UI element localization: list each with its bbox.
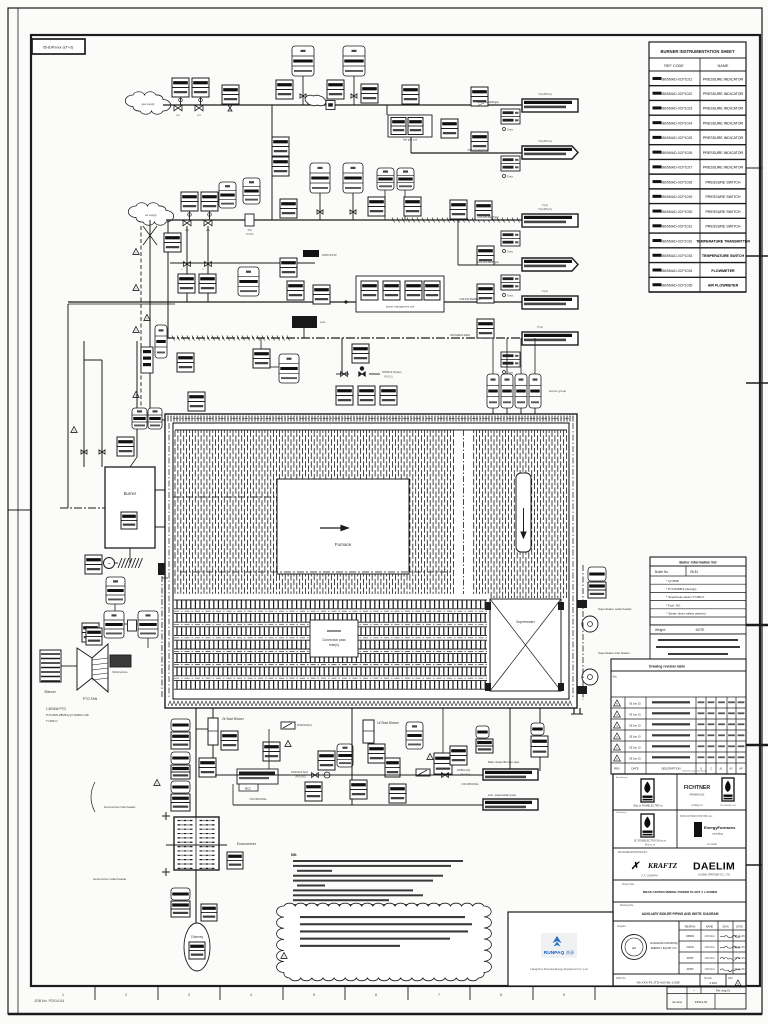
instrument PI-1057 [380, 386, 397, 405]
wire riser x272 [271, 105, 273, 220]
svg-text:1# Start Blower: 1# Start Blower [377, 721, 400, 725]
vent capsule vertical [155, 325, 167, 358]
svg-text:5: 5 [313, 993, 315, 997]
instrument PI-1053 [253, 338, 270, 368]
svg-text:Main steam/fill riser pipe: Main steam/fill riser pipe [488, 760, 520, 764]
flow element FE-A [326, 101, 335, 110]
wire header E [166, 337, 522, 339]
svg-text:Convection pass: Convection pass [322, 638, 346, 642]
svg-text:No.: No. [613, 675, 618, 679]
instrument bc-10 [450, 746, 467, 765]
svg-text:4: 4 [250, 993, 252, 997]
platen superheater [516, 473, 531, 552]
instrument bc-5 [318, 751, 335, 770]
svg-text:05-8J: 05-8J [690, 570, 698, 574]
shaft hatch [118, 558, 142, 568]
svg-text:T(xx)/P(xx): T(xx)/P(xx) [538, 92, 552, 96]
svg-text:DN25 B-FW: DN25 B-FW [322, 253, 337, 257]
wire hazard dashline x141 [140, 226, 142, 420]
superheater headers [485, 602, 564, 691]
blower 2 body [208, 718, 218, 745]
svg-text:DN65x3.5(Gas): DN65x3.5(Gas) [382, 370, 401, 374]
svg-text:05 Jan 15: 05 Jan 15 [629, 745, 641, 749]
instrument PI-1041 [178, 274, 195, 293]
downcomer line [161, 576, 163, 698]
svg-text:PRESSURE INDICATOR: PRESSURE INDICATOR [703, 166, 744, 170]
wire banner4 feed [458, 219, 522, 265]
svg-text:PN RANKA 1/02: PN RANKA 1/02 [720, 804, 737, 807]
svg-text:SUB-CONTRACTOR FOR xxxx: SUB-CONTRACTOR FOR xxxx [680, 815, 713, 818]
svg-text:NAME: NAME [706, 925, 714, 928]
svg-text:0B05MAD-0CP1033: 0B05MAD-0CP1033 [661, 254, 693, 258]
svg-text:!: ! [136, 287, 137, 291]
svg-text:T=180 C: T=180 C [46, 719, 58, 723]
filename sub-table [667, 987, 746, 1009]
dn150 label [291, 770, 308, 779]
svg-text:Boiler No.: Boiler No. [655, 570, 669, 574]
svg-text:05 Jan 15: 05 Jan 15 [734, 947, 745, 949]
vertical box E [141, 347, 153, 373]
warning triangle burner [71, 427, 77, 433]
instrument PI-1029 [471, 132, 488, 151]
svg-text:C00-Ma5x5-Ma00: C00-Ma5x5-Ma00 [450, 334, 471, 337]
mini sample tbl 4 [501, 275, 520, 298]
valve V-A1 [174, 105, 182, 117]
instrument sil-tag [86, 628, 102, 645]
instrument PI-1052 [188, 392, 205, 411]
svg-text:fuel gas unit: fuel gas unit [403, 138, 417, 142]
svg-text:(PN2.5): (PN2.5) [384, 375, 393, 379]
valve bc-1 [312, 773, 319, 778]
svg-text:KRAFTZ: KRAFTZ [647, 861, 678, 870]
eco outlet header mark [162, 868, 170, 876]
svg-text:PRESSURE SWITCH: PRESSURE SWITCH [706, 180, 741, 184]
centering mark right 6 [746, 864, 762, 866]
superheater box [490, 599, 561, 691]
instrument chim-2 [201, 904, 217, 921]
svg-text:05 Jan 15: 05 Jan 15 [629, 712, 641, 716]
wire fuel gas header A [163, 104, 522, 106]
instrument PI-1027 [402, 85, 419, 104]
instrument PI-1026 [361, 84, 378, 103]
svg-text:ENERGY EQUIP. CO.: ENERGY EQUIP. CO. [651, 946, 678, 950]
svg-text:Chimney: Chimney [191, 935, 204, 939]
instrument PI-1034 [368, 197, 385, 216]
svg-text:T(xx): T(xx) [542, 289, 548, 293]
furnace window [277, 479, 409, 574]
svg-text:Multicyclone: Multicyclone [112, 670, 128, 674]
svg-text:7: 7 [438, 993, 440, 997]
svg-text:DAELIM: DAELIM [693, 861, 735, 873]
instrument bc-4 [305, 782, 322, 801]
svg-text:T(xx)/P(xx): T(xx)/P(xx) [538, 139, 552, 143]
wire steam riser 1 [509, 708, 511, 771]
valve bc-2 [442, 773, 449, 778]
blower1 label [377, 721, 400, 725]
instrument bc-7 [385, 758, 400, 777]
svg-text:* P=3.82MPa (design): * P=3.82MPa (design) [666, 587, 696, 591]
bottom ruler scale [62, 986, 595, 1000]
gas skid frame [388, 115, 432, 142]
svg-text:File: dwg-01: File: dwg-01 [716, 989, 731, 993]
svg-text:!: ! [147, 317, 148, 321]
instrument bc-6 [368, 744, 385, 763]
aux steam label [488, 793, 516, 797]
svg-text:BRAZI UNITED MINING POWER PLAN: BRAZI UNITED MINING POWER PLANT 2 x 600M… [643, 890, 717, 894]
valve V-C1 [181, 262, 190, 271]
warning triangle T3 [133, 327, 139, 333]
svg-text:Drain: Drain [507, 294, 514, 298]
instrument burner-int [121, 512, 137, 529]
boiler outer shell [165, 414, 577, 708]
convection bank grid [174, 600, 487, 689]
controller PC capsule [106, 577, 125, 604]
svg-text:NOTE: NOTE [696, 628, 705, 632]
centering mark right 3 [746, 382, 768, 384]
svg-text:05 Jan 15: 05 Jan 15 [734, 969, 745, 971]
furnace centerline h [180, 571, 452, 573]
svg-text:SIGN: SIGN [722, 925, 728, 928]
svg-text:C00-NR5x5xMa: C00-NR5x5xMa [249, 798, 267, 801]
flame arrestor label [549, 389, 567, 393]
controller PC-B2 [243, 178, 260, 204]
instrument PI-1030 [441, 119, 458, 138]
svg-text:1: 1 [62, 993, 64, 997]
svg-text:* Superheat steam T=450 C: * Superheat steam T=450 C [666, 595, 705, 599]
economizer outlet label [94, 877, 127, 881]
svg-text:T/C: T/C [247, 228, 252, 232]
svg-text:!: ! [136, 329, 137, 333]
signature grid [679, 921, 746, 974]
wire skid drop [410, 137, 412, 153]
instrument PT-1023 [222, 85, 239, 105]
svg-text:Beneficiary:: Beneficiary: [616, 776, 628, 779]
svg-text:0B05MAD-0CP1021: 0B05MAD-0CP1021 [661, 77, 693, 81]
svg-text:0B05MAD-0CP1028: 0B05MAD-0CP1028 [661, 180, 693, 184]
svg-text:1:100: 1:100 [709, 981, 717, 985]
instrument eco-TI [171, 781, 190, 811]
svg-text:05 Jan 15: 05 Jan 15 [734, 958, 745, 960]
instrument PI-1021 [172, 78, 189, 105]
instrument eco-out [227, 852, 243, 869]
valve V-B2 [204, 220, 212, 232]
svg-text:~: ~ [693, 989, 695, 993]
svg-text:JOB No. P2014-04: JOB No. P2014-04 [34, 999, 64, 1003]
economizer label [237, 842, 257, 846]
svg-text:T(xx)/P(xx): T(xx)/P(xx) [538, 207, 552, 211]
wire burner-motor [115, 548, 130, 563]
instrument PI-1047 [477, 284, 494, 303]
svg-text:Superheater: Superheater [516, 620, 536, 624]
wire burner-boiler links [155, 490, 165, 527]
wire main steam bus [215, 774, 483, 776]
svg-text:Project title:: Project title: [622, 883, 635, 886]
svg-text:Drain: Drain [507, 250, 514, 254]
svg-text:RUNPAQ: RUNPAQ [544, 950, 565, 956]
instrument chim-TE [171, 888, 190, 917]
turbine PTG [77, 644, 108, 701]
svg-text:PRESSURE SWITCH: PRESSURE SWITCH [706, 225, 741, 229]
svg-text:2# Start Blower: 2# Start Blower [222, 717, 245, 721]
PTG spec text [46, 707, 90, 723]
svg-text:!: ! [430, 756, 431, 760]
motor M1 [104, 558, 115, 569]
svg-text:C00-3x5-Ma35(ga): C00-3x5-Ma35(ga) [468, 149, 489, 152]
wire left header x68 [68, 304, 175, 508]
main steam label [488, 760, 520, 764]
svg-text:05 Jan 15: 05 Jan 15 [629, 723, 641, 727]
wire drop gas train [341, 338, 343, 374]
svg-text:TEMPERATURE TRANSMITTER: TEMPERATURE TRANSMITTER [696, 239, 750, 243]
svg-text:0B05MAD-0CP1034: 0B05MAD-0CP1034 [661, 269, 693, 273]
svg-text:* Steam drum safety valve(s): * Steam drum safety valve(s) [666, 612, 706, 616]
duct hatch line B [392, 218, 520, 223]
fichtner cell [682, 770, 737, 808]
svg-text:NAME: NAME [718, 64, 729, 68]
bracket eco [91, 782, 95, 812]
damper 2 [416, 769, 430, 776]
capsule PS-C [238, 267, 259, 296]
instrument PI-1048 [477, 246, 494, 265]
svg-text:AP: AP [739, 767, 743, 770]
boiler floor hatch [168, 701, 572, 706]
svg-text:(PN1600): (PN1600) [295, 776, 306, 779]
capsule FIC [138, 611, 158, 638]
wire flue duct lower [195, 870, 197, 924]
instrument PI-1051 [177, 353, 194, 372]
economizer body [166, 817, 227, 870]
rear duct stub [571, 708, 583, 714]
mini sample tbl 2 [501, 156, 520, 179]
svg-text:C00-3x5-Ma35(ga): C00-3x5-Ma35(ga) [478, 216, 499, 219]
svg-text:CHKD: CHKD [686, 945, 693, 949]
svg-text:Drawing revision table: Drawing revision table [649, 665, 685, 669]
job number text [34, 999, 64, 1003]
instrument PI-1044 [280, 258, 297, 277]
svg-text:AIR FLOWMETER: AIR FLOWMETER [708, 284, 739, 288]
svg-text:PRESSURE INDICATOR: PRESSURE INDICATOR [703, 121, 744, 125]
svg-text:C: C [710, 767, 712, 770]
valve Vb1 [81, 450, 105, 454]
svg-text:NB:: NB: [291, 853, 297, 857]
svg-text:consulting: consulting [712, 833, 723, 836]
mcc block [237, 769, 278, 791]
svg-text:rel name: rel name [672, 1000, 683, 1004]
pipe spec label 5 [460, 298, 481, 301]
svg-text:FICHTNER: FICHTNER [684, 785, 710, 791]
svg-text:0B05MAD-0CP1023: 0B05MAD-0CP1023 [661, 107, 693, 111]
banner burner-4 [522, 258, 578, 271]
instrument PI-1031 [181, 192, 198, 220]
svg-text:Contractor:: Contractor: [616, 811, 627, 814]
right wall drop line [582, 565, 584, 700]
pipe spec label 1 [478, 101, 499, 106]
svg-text:!: ! [74, 429, 75, 433]
control valve CV-1 [143, 226, 157, 245]
svg-text:Superheater outlet header: Superheater outlet header [598, 607, 632, 611]
svg-text:APPD: APPD [686, 956, 693, 960]
instrument PI-1033 [280, 199, 297, 218]
instrument FE [434, 753, 452, 774]
wire drop to skid [386, 105, 388, 115]
mini sample tbl 1 [501, 109, 520, 132]
instrument PI-1043 [164, 233, 181, 252]
instrument bc-2 [199, 758, 216, 777]
warning triangle eco [154, 780, 160, 786]
node air supply cloud [128, 203, 173, 225]
banner burner-6 [522, 332, 578, 345]
svg-text:Drawing title:: Drawing title: [620, 904, 634, 907]
node dn25 label [303, 250, 337, 257]
svg-text:C00-3x5-Ma35(ga): C00-3x5-Ma35(ga) [478, 101, 499, 104]
svg-text:0B05MAD-0CP1035: 0B05MAD-0CP1035 [661, 284, 693, 288]
burner lance capsules [487, 338, 541, 415]
banner burner-5 [522, 296, 578, 309]
wire burner gas drop x150 [150, 220, 165, 420]
supplier stamp cell [617, 921, 679, 974]
svg-text:~: ~ [108, 562, 111, 568]
pipe spec label 4 [478, 261, 499, 264]
svg-text:6: 6 [375, 993, 377, 997]
weight row [650, 625, 746, 634]
svg-text:(Ro) xx xx: (Ro) xx xx [645, 845, 656, 847]
svg-text:HZ: HZ [632, 946, 636, 950]
banner burner-3 [522, 207, 578, 227]
svg-text:0B05MAD-0CP1027: 0B05MAD-0CP1027 [661, 166, 693, 170]
svg-text:热源: 热源 [566, 949, 574, 955]
svg-text:!: ! [288, 743, 289, 747]
node vent cloud [305, 95, 326, 105]
spec label steam [461, 783, 479, 786]
centering mark right 5 [746, 744, 768, 747]
svg-text:8: 8 [500, 993, 502, 997]
sh inlet header label [598, 651, 630, 655]
svg-text:Drain: Drain [507, 175, 514, 179]
capsule TE bc [476, 726, 493, 753]
title block frame [613, 774, 746, 986]
wire burner centerline [60, 507, 105, 509]
svg-text:(Ro) xx ROMELECTRO xx: (Ro) xx ROMELECTRO xx [633, 805, 663, 808]
cyclone circle 1 [582, 616, 598, 632]
dn80 label [457, 768, 471, 777]
instrument PI-1028 [471, 87, 488, 106]
pipe spec label 3 [478, 216, 499, 219]
kraft logo [618, 851, 678, 878]
svg-text:Economizer outlet header: Economizer outlet header [94, 877, 127, 881]
spec label blower [249, 798, 267, 801]
furnace waterwall hatch [175, 431, 567, 599]
svg-text:DATE: DATE [631, 767, 638, 771]
svg-text:PRESSURE INDICATOR: PRESSURE INDICATOR [703, 136, 744, 140]
boiler info table [650, 557, 746, 625]
wire drop x208 [207, 226, 209, 302]
svg-text:EnergyFurnaces: EnergyFurnaces [704, 825, 736, 830]
svg-text:9: 9 [563, 993, 565, 997]
svg-text:gas supply: gas supply [142, 102, 156, 106]
svg-text:BURNER INSTRUMENTATION SHEET: BURNER INSTRUMENTATION SHEET [660, 49, 734, 54]
sh outlet stub [577, 600, 587, 694]
instrument burner-1 [117, 437, 134, 456]
svg-text:0B05MAD-0CP1031: 0B05MAD-0CP1031 [661, 225, 693, 229]
svg-text:PRESSURE SWITCH: PRESSURE SWITCH [706, 210, 741, 214]
svg-text:0B05MAD-0CP1025: 0B05MAD-0CP1025 [661, 136, 693, 140]
svg-text:Hangzhou Runpaq Energy Equipme: Hangzhou Runpaq Energy Equipment Co.,Ltd [531, 967, 588, 971]
notes block [291, 853, 463, 916]
svg-text:AUXILIARY BOILER PIPING AND IN: AUXILIARY BOILER PIPING AND INSTR. DIAGR… [642, 912, 719, 916]
svg-text:REV: REV [614, 767, 620, 771]
svg-text:K.A. COMPANY: K.A. COMPANY [641, 875, 658, 878]
controller PC-B1 [219, 182, 236, 208]
svg-text:DESCRIPTION: DESCRIPTION [661, 767, 680, 771]
valve V-A3 hourglass [228, 105, 232, 111]
svg-text:Superheater inlet header: Superheater inlet header [598, 651, 630, 655]
svg-text:Aux. steam/drain pipe: Aux. steam/drain pipe [488, 793, 516, 797]
svg-text:tube(s): tube(s) [329, 643, 339, 647]
svg-text:0B05MAD-0CP1024: 0B05MAD-0CP1024 [661, 121, 693, 125]
svg-text:REF CODE: REF CODE [664, 64, 684, 68]
check valve bc [324, 772, 330, 778]
inline element TC [245, 214, 254, 236]
centering mark right 2 [746, 255, 768, 257]
instrument PI-1025 [327, 80, 344, 99]
svg-text:a Wing xx: a Wing xx [691, 803, 703, 807]
svg-text:PRESSURE INDICATOR: PRESSURE INDICATOR [703, 77, 744, 81]
instrument PI-1042 [199, 274, 216, 293]
capsule PCV-2 [397, 168, 414, 220]
svg-text:Supplier:: Supplier: [617, 925, 627, 928]
channel centerline [463, 430, 465, 594]
instrument PI-1035 [404, 197, 421, 216]
svg-text:0B05MAD-0CP1022: 0B05MAD-0CP1022 [661, 92, 693, 96]
instrument PI-1045 [287, 281, 304, 300]
svg-text:PTG FAN: PTG FAN [83, 697, 98, 701]
boiler inner shell [173, 423, 569, 699]
pipe spec label 6 [450, 334, 471, 337]
svg-text:C00-NR5x5xMa: C00-NR5x5xMa [461, 783, 479, 786]
valve V-C2 [202, 262, 211, 271]
instrument PI-1024 [276, 80, 293, 99]
left wall header stub [158, 563, 168, 581]
wire blower1 drop [351, 708, 353, 805]
info notes paragraph [650, 634, 746, 659]
centering mark left [8, 509, 31, 511]
warning triangle bc2 [427, 754, 433, 760]
svg-text:J.W.Xxxx: J.W.Xxxx [704, 968, 715, 971]
wire turbine feeds [115, 604, 148, 648]
main steam banner [483, 769, 538, 780]
svg-text:C00-3x5-Ma35(ga): C00-3x5-Ma35(ga) [478, 261, 499, 264]
instrument M1-tag [85, 555, 102, 574]
runpaq logo cell [508, 912, 613, 986]
wire steam riser 2 [539, 708, 541, 771]
svg-text:0B05MAD-0CP1030: 0B05MAD-0CP1030 [661, 210, 693, 214]
energy furnaces logo [680, 815, 736, 846]
svg-text:PRESSURE INDICATOR: PRESSURE INDICATOR [703, 92, 744, 96]
wire fuel gas line A2 [411, 152, 522, 154]
banner top label 5 [542, 289, 548, 293]
instrument PI-1037 [475, 201, 492, 220]
svg-text:REV: REV [728, 977, 733, 980]
svg-text:x x: x x [197, 113, 201, 117]
warning triangle T5 [144, 315, 150, 321]
blower 1 body [363, 720, 374, 743]
wire flue duct upper [195, 708, 197, 817]
svg-text:Boiler information list: Boiler information list [679, 561, 717, 565]
project cell [622, 883, 717, 894]
logo flame 2 [616, 811, 667, 847]
wire header C [68, 301, 522, 303]
gas train label [382, 370, 401, 379]
